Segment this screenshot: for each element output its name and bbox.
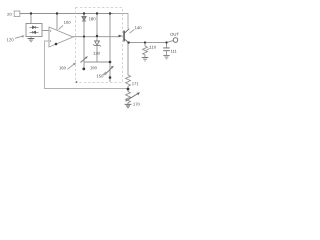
svg-text:170: 170 — [133, 102, 141, 107]
svg-text:190: 190 — [90, 65, 98, 70]
svg-text:20: 20 — [7, 12, 12, 17]
svg-text:171: 171 — [132, 81, 140, 86]
svg-text:OUT: OUT — [170, 32, 179, 37]
svg-text:100: 100 — [64, 20, 72, 25]
svg-text:150: 150 — [96, 74, 104, 79]
svg-text:110: 110 — [150, 45, 157, 50]
svg-text:130: 130 — [93, 51, 101, 56]
svg-text:160: 160 — [59, 65, 67, 70]
svg-text:180: 180 — [89, 16, 97, 21]
svg-text:120: 120 — [7, 37, 15, 42]
svg-text:111: 111 — [171, 49, 178, 54]
svg-text:140: 140 — [135, 25, 143, 30]
